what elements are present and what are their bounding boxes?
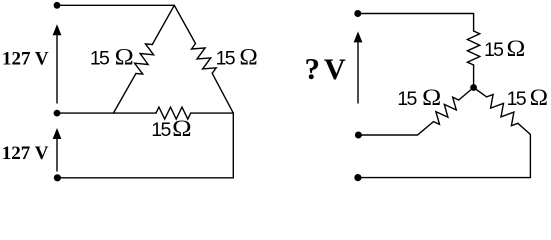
arrow V2 shaft xyxy=(56,137,58,172)
svg-text:Ω: Ω xyxy=(507,36,526,62)
svg-text:?: ? xyxy=(305,51,321,86)
arrow V2 head (lower 127 V) xyxy=(53,128,62,139)
resistor R2 15 ohm (right diagonal of delta) xyxy=(192,44,217,74)
wire: right zigzag down and along bottom to bottom terminal xyxy=(358,123,531,177)
svg-text:Ω: Ω xyxy=(172,116,192,142)
resistor R3 15 ohm (bottom of delta) xyxy=(156,107,191,119)
svg-text:Ω: Ω xyxy=(239,45,257,71)
svg-text:15: 15 xyxy=(90,48,110,70)
svg-text:127 V: 127 V xyxy=(2,49,49,70)
node: left circuit top terminal xyxy=(54,2,61,9)
wire: right diagonal lower segment xyxy=(212,73,233,113)
resistor R1 15 ohm (left diagonal of delta) xyxy=(135,44,154,74)
wire: left circuit top wire from terminal to apex xyxy=(57,4,174,6)
wire: center node to left zigzag xyxy=(459,88,474,101)
svg-text:127 V: 127 V xyxy=(2,143,49,164)
resistor R6 15 ohm (right branch of wye) xyxy=(487,95,518,126)
wire: right side down and along bottom to bottom terminal xyxy=(57,113,233,178)
node: left circuit bottom terminal xyxy=(54,174,61,181)
wire: left zigzag to middle terminal xyxy=(358,122,433,135)
wire: left diagonal upper segment xyxy=(152,5,174,44)
node: left circuit middle terminal xyxy=(54,110,61,117)
node: wye top terminal xyxy=(354,10,361,17)
arrow shaft (? V) xyxy=(357,40,359,104)
svg-text:15: 15 xyxy=(397,88,417,110)
svg-text:Ω: Ω xyxy=(115,45,134,71)
wire: middle-left terminal to bottom resistor xyxy=(57,112,156,114)
wire: left diagonal lower segment xyxy=(113,74,135,114)
svg-text:Ω: Ω xyxy=(530,85,548,111)
wire: center node to right zigzag xyxy=(474,88,487,97)
svg-text:15: 15 xyxy=(216,48,236,70)
wire: wye vertical resistor to center node xyxy=(473,65,475,88)
wire: right diagonal upper segment xyxy=(174,5,195,43)
svg-text:V: V xyxy=(324,53,346,86)
arrow V1 shaft xyxy=(56,33,58,104)
svg-text:15: 15 xyxy=(484,39,504,61)
resistor R4 15 ohm (top branch of wye) xyxy=(467,31,479,65)
node: wye center junction xyxy=(470,84,477,91)
svg-text:Ω: Ω xyxy=(422,85,441,111)
svg-text:15: 15 xyxy=(151,119,171,141)
svg-text:15: 15 xyxy=(507,88,527,110)
node: wye bottom terminal xyxy=(354,174,361,181)
wire: bottom resistor to bottom-right vertex xyxy=(191,112,234,114)
node: wye middle terminal xyxy=(355,132,362,139)
arrow head (? V) xyxy=(354,31,363,42)
arrow V1 head (upper 127 V) xyxy=(53,24,62,35)
resistor R5 15 ohm (left branch of wye) xyxy=(434,97,459,124)
wire: wye top wire from terminal to corner xyxy=(358,14,474,32)
